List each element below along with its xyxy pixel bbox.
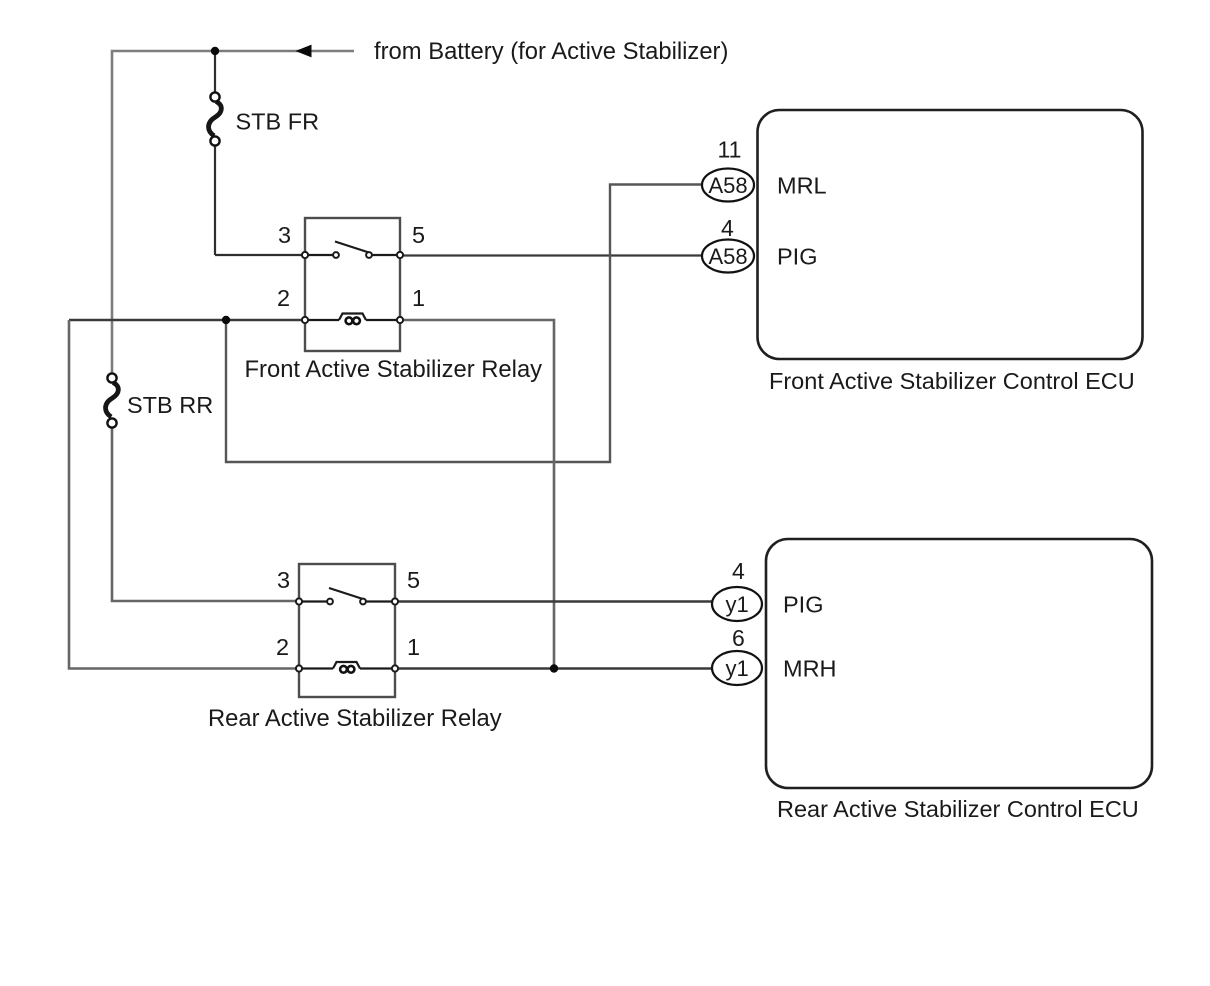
svg-text:3: 3 <box>277 567 290 593</box>
svg-text:Front Active Stabilizer Relay: Front Active Stabilizer Relay <box>245 356 543 383</box>
svg-text:4: 4 <box>721 215 734 241</box>
svg-text:2: 2 <box>276 634 289 660</box>
svg-text:2: 2 <box>277 285 290 311</box>
svg-text:A58: A58 <box>709 244 748 269</box>
svg-text:PIG: PIG <box>777 244 817 270</box>
svg-text:1: 1 <box>407 634 420 660</box>
svg-text:11: 11 <box>718 137 742 163</box>
svg-text:3: 3 <box>278 222 291 248</box>
svg-text:STB RR: STB RR <box>127 392 213 418</box>
svg-text:5: 5 <box>412 222 425 248</box>
svg-text:y1: y1 <box>726 592 749 617</box>
svg-text:MRL: MRL <box>777 173 827 199</box>
svg-text:Rear Active Stabilizer Control: Rear Active Stabilizer Control ECU <box>777 796 1139 822</box>
svg-text:MRH: MRH <box>783 656 837 682</box>
svg-text:4: 4 <box>732 558 745 584</box>
svg-text:Front Active Stabilizer Contro: Front Active Stabilizer Control ECU <box>769 368 1135 394</box>
svg-text:from Battery (for Active Stabi: from Battery (for Active Stabilizer) <box>374 38 728 65</box>
svg-text:1: 1 <box>412 285 425 311</box>
svg-text:A58: A58 <box>709 173 748 198</box>
svg-text:Rear Active Stabilizer Relay: Rear Active Stabilizer Relay <box>208 705 502 732</box>
svg-text:5: 5 <box>407 567 420 593</box>
svg-text:y1: y1 <box>726 656 749 681</box>
svg-text:STB FR: STB FR <box>236 109 320 135</box>
svg-text:PIG: PIG <box>783 592 823 618</box>
svg-text:6: 6 <box>732 625 745 651</box>
